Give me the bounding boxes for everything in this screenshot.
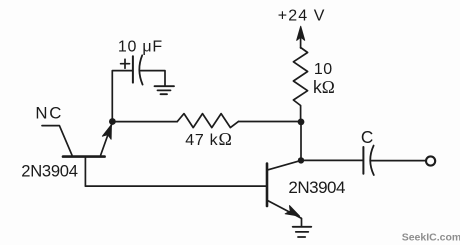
capacitor C1 10uF curved plate — [139, 55, 142, 84]
svg-text:2N3904: 2N3904 — [21, 161, 77, 180]
node A junction dot — [109, 118, 116, 125]
capacitor C1 10uF left plate — [132, 56, 134, 82]
output terminal circle — [426, 156, 435, 165]
transistor Q2 base bar — [266, 164, 269, 207]
Q2 emitter with arrow — [268, 201, 301, 219]
svg-text:10: 10 — [314, 61, 333, 78]
NC lead wire to Q1 collector — [42, 126, 72, 156]
resistor R2 47k (horizontal zigzag) — [177, 114, 238, 128]
ground (10uF) — [155, 86, 175, 94]
capacitor C curved plate — [370, 146, 374, 175]
plus polarity mark — [121, 59, 130, 68]
+24V arrow — [297, 26, 305, 48]
label 10 kOhm (R1) — [313, 61, 335, 97]
wire 47k to node B — [239, 121, 302, 123]
wire node C to cap C — [301, 159, 363, 161]
svg-text:47 kΩ: 47 kΩ — [185, 129, 232, 149]
wire node B down to node C — [300, 122, 302, 160]
svg-text:SeekIC.com: SeekIC.com — [402, 232, 460, 244]
transistor Q1 base bar — [63, 155, 105, 158]
wire bus node A to 47k — [112, 121, 177, 123]
svg-text:+24 V: +24 V — [278, 8, 326, 25]
Q1 base lead down — [84, 157, 86, 186]
node B junction dot — [298, 119, 305, 126]
svg-text:10 μF: 10 μF — [118, 39, 163, 56]
Q2 collector diagonal — [268, 160, 301, 169]
node C junction dot — [298, 157, 304, 163]
ground (Q2 emitter) — [293, 227, 312, 237]
svg-text:2N3904: 2N3904 — [288, 178, 345, 197]
capacitor C left plate — [362, 147, 364, 174]
svg-text:NC: NC — [35, 104, 63, 123]
svg-text:kΩ: kΩ — [313, 77, 335, 97]
resistor R1 10k (vertical zigzag) — [293, 48, 307, 123]
Q1 emitter with arrow to node A — [101, 123, 112, 155]
wire emitter to ground — [300, 218, 302, 226]
wire cap C to output — [371, 160, 426, 162]
svg-text:C: C — [361, 127, 373, 147]
wire node A up to 10uF cap — [112, 71, 132, 122]
wire Q1 base to Q2 base — [85, 185, 265, 187]
wire cap to ground — [141, 71, 165, 86]
